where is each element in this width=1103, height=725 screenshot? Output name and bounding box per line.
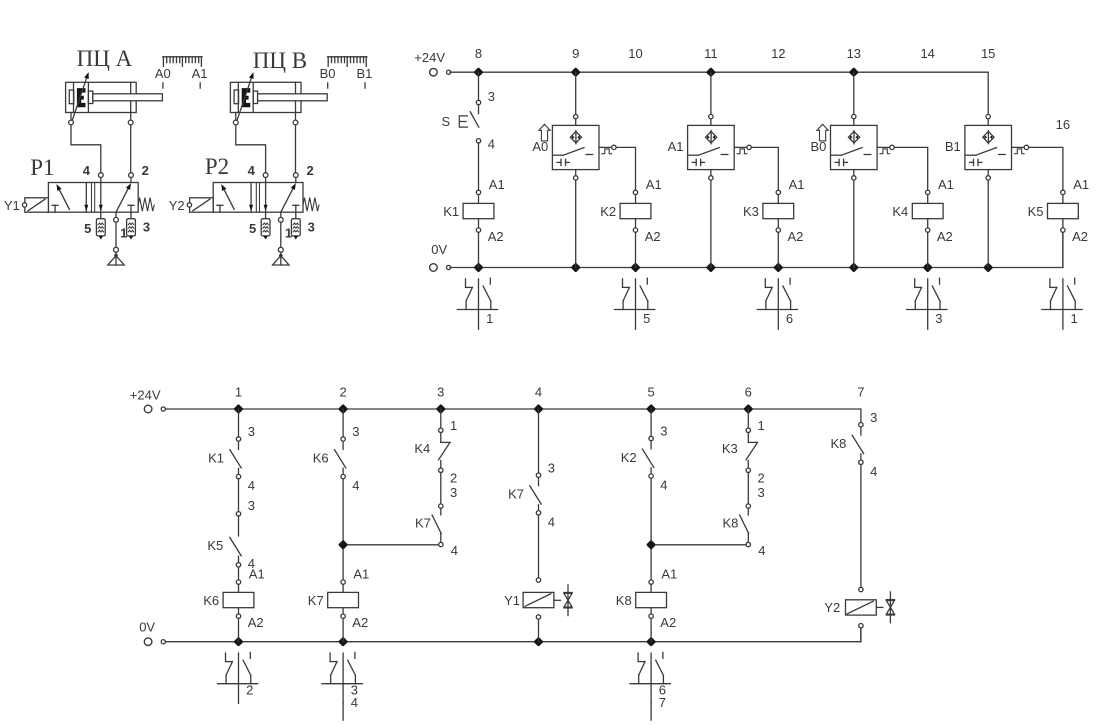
terminal A2 of K3 xyxy=(776,228,780,232)
wire K3 contact to K8 contact xyxy=(747,473,749,504)
+24V rail (upper ladder) xyxy=(450,72,988,114)
junction on 0V rail xyxy=(925,264,931,270)
port 1 of P2 xyxy=(280,212,282,217)
svg-text:K1: K1 xyxy=(208,450,224,465)
tube: ПЦ A right port to valve P1 port 2 xyxy=(130,125,132,173)
terminal A2 of K5 xyxy=(1061,228,1065,232)
0V rail (upper ladder) xyxy=(450,232,1063,267)
wire A2 of K6 to 0V rail xyxy=(238,618,240,641)
port 3 silencer of P1 xyxy=(130,212,132,219)
svg-text:B1: B1 xyxy=(945,139,961,154)
wire A1 to coil K7 xyxy=(342,584,344,592)
svg-text:K4: K4 xyxy=(414,441,430,456)
wire A1 to coil K6 xyxy=(238,584,240,592)
tube: ПЦ B right port to valve P2 port 2 xyxy=(295,125,297,173)
wire K1 contact to K5 contact xyxy=(238,479,240,512)
wire A1 to coil K8 xyxy=(650,584,652,592)
svg-text:K3: K3 xyxy=(743,204,759,219)
5/2-way solenoid valve P2 (solenoid Y2, spring return) xyxy=(187,183,319,213)
svg-text:4: 4 xyxy=(660,478,667,493)
junction on +24V rail xyxy=(851,69,857,75)
NO contact K7 (3/4) xyxy=(508,460,555,529)
NO contact K8 (3/4) xyxy=(830,410,877,479)
wire A2 of K1 to 0V rail xyxy=(478,232,480,267)
wire Y2 to 0V rail xyxy=(860,628,862,642)
wire +24V rail to switch S xyxy=(478,72,480,100)
svg-text:3: 3 xyxy=(870,410,877,425)
svg-text:K7: K7 xyxy=(308,593,324,608)
terminal A1 of K6 xyxy=(236,580,240,584)
terminal A1 of K4 xyxy=(926,190,930,194)
svg-text:A0: A0 xyxy=(155,66,171,81)
NO contact K5 (3/4) xyxy=(207,498,255,571)
svg-text:A1: A1 xyxy=(661,567,677,582)
relay coil K6 xyxy=(223,592,254,607)
wire A1 to coil K3 xyxy=(777,195,779,204)
wire +24V rail to K1 contact xyxy=(238,409,240,437)
svg-text:+24V: +24V xyxy=(414,50,445,65)
svg-text:2: 2 xyxy=(306,163,313,178)
junction on 0V rail xyxy=(985,264,991,270)
wire A2 of K8 to 0V rail xyxy=(650,618,652,641)
svg-text:K2: K2 xyxy=(600,204,616,219)
NO contact K6 (3/4) xyxy=(313,424,360,493)
junction on 0V rail xyxy=(851,264,857,270)
svg-text:S: S xyxy=(442,114,451,129)
contact cross-reference (rung 3/4) xyxy=(322,652,362,720)
compressed air source for P1 xyxy=(108,247,124,265)
svg-text:3: 3 xyxy=(248,498,255,513)
pneumatic link symbol at Y2 xyxy=(886,592,894,623)
svg-text:A1: A1 xyxy=(1073,177,1089,192)
svg-text:1: 1 xyxy=(285,226,292,241)
svg-text:A1: A1 xyxy=(353,567,369,582)
proximity switch A1 xyxy=(668,114,752,180)
junction on 0V rail xyxy=(475,264,481,270)
wire A1 output to K3 xyxy=(751,147,778,190)
contact cross-reference (rung 5) xyxy=(615,278,655,329)
wire K8 contact to Y2 xyxy=(860,465,862,588)
svg-text:4: 4 xyxy=(548,514,555,529)
wire +24V rail to A0 xyxy=(575,72,577,114)
svg-text:K5: K5 xyxy=(207,538,223,553)
junction on 0V rail xyxy=(648,639,654,645)
svg-text:A2: A2 xyxy=(352,615,368,630)
wire Y1 to 0V rail xyxy=(538,619,540,642)
junction on +24V rail xyxy=(475,69,481,75)
svg-text:5: 5 xyxy=(84,221,91,236)
junction on 0V rail xyxy=(632,264,638,270)
wire A0 output to K2 xyxy=(616,147,635,190)
contact cross-reference (rung 1) xyxy=(1042,278,1082,329)
svg-text:K7: K7 xyxy=(508,487,524,502)
svg-text:0V: 0V xyxy=(431,242,447,257)
wire coil K7 to A2 xyxy=(342,608,344,614)
wire K7 contact to Y1 xyxy=(538,515,540,578)
NO contact K2 (3/4) xyxy=(621,424,668,493)
svg-text:3: 3 xyxy=(660,424,667,439)
0V rail (lower ladder) xyxy=(165,628,861,642)
wire coil K4 to A2 xyxy=(927,219,929,228)
svg-text:A2: A2 xyxy=(937,229,953,244)
svg-text:4: 4 xyxy=(451,543,458,558)
svg-text:K5: K5 xyxy=(1028,204,1044,219)
svg-text:B1: B1 xyxy=(356,66,372,81)
svg-text:ПЦ B: ПЦ B xyxy=(253,48,307,73)
relay coil K2 xyxy=(620,203,651,218)
wire A0 to 0V rail xyxy=(575,180,577,267)
port 2 of P1 xyxy=(129,173,134,178)
svg-text:A1: A1 xyxy=(789,177,805,192)
svg-text:K3: K3 xyxy=(722,441,738,456)
double-acting cylinder ПЦ B with magnetic piston xyxy=(230,72,327,125)
wire A1 to coil K5 xyxy=(1062,195,1064,204)
terminal A1 of K5 xyxy=(1061,190,1065,194)
svg-text:Y2: Y2 xyxy=(824,600,840,615)
wire rung6 to rung5 merge xyxy=(656,544,746,546)
relay coil K7 xyxy=(328,592,359,607)
relay coil K5 xyxy=(1048,203,1079,218)
position scale B0/B1 for cylinder ПЦ B xyxy=(320,57,373,88)
valve solenoid Y1 xyxy=(504,578,560,619)
0V rail terminal (lower ladder) xyxy=(144,638,152,646)
0V rail terminal (upper ladder) xyxy=(430,264,438,272)
port 1 of P1 xyxy=(115,212,117,217)
svg-text:4: 4 xyxy=(351,695,358,710)
svg-text:6: 6 xyxy=(745,384,752,399)
terminal A1 of K1 xyxy=(476,190,480,194)
svg-text:2: 2 xyxy=(142,163,149,178)
svg-text:10: 10 xyxy=(628,46,642,61)
svg-text:4: 4 xyxy=(488,136,495,151)
terminal A1 of K7 xyxy=(341,580,345,584)
wire B0 output to K4 xyxy=(894,147,928,190)
wire coil K3 to A2 xyxy=(777,219,779,228)
tube: ПЦ B left port to valve P2 port 4 xyxy=(236,125,266,173)
svg-text:K7: K7 xyxy=(415,515,431,530)
wire B1 output to K5 xyxy=(1029,147,1063,190)
junction on 0V rail xyxy=(235,639,241,645)
double-acting cylinder ПЦ A with magnetic piston xyxy=(66,72,163,125)
junction on +24V rail xyxy=(648,406,654,412)
relay coil K3 xyxy=(763,203,794,218)
5/2-way solenoid valve P1 (solenoid Y1, spring return) xyxy=(22,183,154,213)
svg-text:A1: A1 xyxy=(646,177,662,192)
svg-text:4: 4 xyxy=(870,464,877,479)
wire +24V rail to K4 contact xyxy=(440,409,442,428)
junction on 0V rail xyxy=(775,264,781,270)
port 3 silencer of P2 xyxy=(295,212,297,219)
junction rung5/rung6 merge xyxy=(648,542,654,548)
terminal A1 of K3 xyxy=(776,190,780,194)
svg-text:Y1: Y1 xyxy=(504,593,520,608)
svg-text:A1: A1 xyxy=(668,139,684,154)
terminal A1 of K8 xyxy=(649,580,653,584)
+24V rail terminal (lower ladder) xyxy=(144,405,152,413)
svg-text:1: 1 xyxy=(450,418,457,433)
wire B0 to 0V rail xyxy=(853,180,855,267)
terminal A2 of K6 xyxy=(236,614,240,618)
svg-text:1: 1 xyxy=(120,226,127,241)
wire A2 of K5 to 0V rail xyxy=(1062,232,1064,267)
wire A2 of K3 to 0V rail xyxy=(777,232,779,267)
wire coil K5 to A2 xyxy=(1062,219,1064,228)
wire +24V rail to K2 contact xyxy=(650,409,652,436)
svg-text:3: 3 xyxy=(450,485,457,500)
svg-text:A2: A2 xyxy=(248,615,264,630)
junction on +24V rail xyxy=(235,406,241,412)
terminal A2 of K1 xyxy=(476,228,480,232)
svg-text:4: 4 xyxy=(352,478,359,493)
wire A1 to coil K2 xyxy=(635,195,637,204)
svg-text:K1: K1 xyxy=(443,204,459,219)
svg-text:3: 3 xyxy=(758,485,765,500)
svg-text:12: 12 xyxy=(771,46,785,61)
+24V rail (lower ladder) xyxy=(165,409,861,423)
svg-text:A2: A2 xyxy=(660,615,676,630)
wire +24V rail to B0 xyxy=(853,72,855,114)
NO contact K7 (3/4) rung 3 xyxy=(415,485,458,558)
svg-text:7: 7 xyxy=(659,695,666,710)
wire coil K2 to A2 xyxy=(635,219,637,228)
svg-text:3: 3 xyxy=(248,424,255,439)
wire +24V rail to A1 xyxy=(710,72,712,114)
svg-text:4: 4 xyxy=(248,163,256,178)
svg-text:13: 13 xyxy=(847,46,861,61)
svg-text:K2: K2 xyxy=(621,450,637,465)
relay coil K4 xyxy=(912,203,943,218)
junction on 0V rail xyxy=(340,639,346,645)
svg-text:5: 5 xyxy=(647,384,654,399)
svg-text:A2: A2 xyxy=(788,229,804,244)
switch S (NO, detent) xyxy=(442,89,496,151)
proximity switch A0 xyxy=(532,114,616,180)
NO contact K8 (3/4) rung 6 xyxy=(722,485,765,558)
svg-text:K8: K8 xyxy=(722,515,738,530)
NC contact K3 (1/2) xyxy=(722,418,765,485)
compressed air source for P2 xyxy=(273,247,289,265)
svg-text:A2: A2 xyxy=(1072,229,1088,244)
NC contact K4 (1/2) xyxy=(414,418,457,485)
svg-text:A1: A1 xyxy=(489,177,505,192)
svg-text:K6: K6 xyxy=(203,593,219,608)
wire coil K8 to A2 xyxy=(650,608,652,614)
proximity switch B0 xyxy=(810,114,894,180)
wire A2 of K7 to 0V rail xyxy=(342,618,344,641)
terminal A2 of K2 xyxy=(633,228,637,232)
svg-text:11: 11 xyxy=(704,46,718,61)
svg-text:4: 4 xyxy=(83,163,91,178)
svg-text:1: 1 xyxy=(486,311,493,326)
svg-text:K6: K6 xyxy=(313,450,329,465)
relay coil K8 xyxy=(636,592,667,607)
svg-text:2: 2 xyxy=(450,470,457,485)
svg-text:9: 9 xyxy=(572,46,579,61)
svg-text:A2: A2 xyxy=(488,229,504,244)
svg-text:A1: A1 xyxy=(249,567,265,582)
terminal A1 of K2 xyxy=(633,190,637,194)
port 4 of P1 xyxy=(98,173,103,178)
proximity switch B1 xyxy=(945,114,1029,180)
contact cross-reference (rung 6) xyxy=(757,278,797,329)
svg-text:3: 3 xyxy=(143,220,150,235)
position scale A0/A1 for cylinder ПЦ A xyxy=(155,57,208,88)
junction on 0V rail xyxy=(708,264,714,270)
NO contact K1 (3/4) xyxy=(208,424,255,493)
wire A1 to coil K4 xyxy=(927,195,929,204)
junction rung2/rung3 merge xyxy=(340,542,346,548)
wire A2 of K4 to 0V rail xyxy=(927,232,929,267)
svg-text:P2: P2 xyxy=(205,154,229,179)
wire +24V rail to K7 contact xyxy=(538,409,540,473)
svg-text:5: 5 xyxy=(249,221,256,236)
svg-text:2: 2 xyxy=(246,683,253,698)
junction on 0V rail xyxy=(535,639,541,645)
svg-text:A2: A2 xyxy=(645,229,661,244)
svg-text:4: 4 xyxy=(535,384,542,399)
relay coil K1 xyxy=(463,203,494,218)
contact cross-reference (rung 6/7) xyxy=(630,652,670,720)
svg-text:1: 1 xyxy=(1071,311,1078,326)
junction on +24V rail xyxy=(708,69,714,75)
svg-text:15: 15 xyxy=(981,46,995,61)
svg-text:1: 1 xyxy=(758,418,765,433)
svg-text:Y1: Y1 xyxy=(4,198,20,213)
svg-text:3: 3 xyxy=(935,311,942,326)
svg-text:2: 2 xyxy=(339,384,346,399)
svg-text:6: 6 xyxy=(786,311,793,326)
junction on 0V rail xyxy=(573,264,579,270)
svg-text:4: 4 xyxy=(248,478,255,493)
wire coil K6 to A2 xyxy=(238,608,240,614)
junction on +24V rail xyxy=(573,69,579,75)
wire +24V rail to K6 contact xyxy=(342,409,344,437)
svg-text:B0: B0 xyxy=(320,66,336,81)
terminal A2 of K4 xyxy=(926,228,930,232)
svg-text:K8: K8 xyxy=(830,436,846,451)
svg-text:16: 16 xyxy=(1056,117,1070,132)
svg-text:8: 8 xyxy=(475,46,482,61)
wire A2 of K2 to 0V rail xyxy=(635,232,637,267)
terminal A2 of K7 xyxy=(341,614,345,618)
wire A1 to coil K1 xyxy=(478,195,480,204)
pneumatic link symbol at Y1 xyxy=(564,585,572,616)
port 4 of P2 xyxy=(263,173,268,178)
port 5 silencer of P2 xyxy=(265,212,267,219)
wire A1 to 0V rail xyxy=(710,180,712,267)
svg-text:P1: P1 xyxy=(30,155,54,180)
port 5 silencer of P1 xyxy=(100,212,102,219)
wire switch S to K1 xyxy=(478,143,480,191)
svg-text:K4: K4 xyxy=(892,204,908,219)
svg-text:2: 2 xyxy=(758,470,765,485)
junction on +24V rail xyxy=(438,406,444,412)
contact cross-reference (rung 3) xyxy=(907,278,947,329)
wire +24V rail to K3 contact xyxy=(747,409,749,428)
svg-text:7: 7 xyxy=(857,384,864,399)
junction on +24V rail xyxy=(745,406,751,412)
port 2 of P2 xyxy=(293,173,298,178)
junction on +24V rail xyxy=(535,406,541,412)
svg-text:K8: K8 xyxy=(616,593,632,608)
svg-text:4: 4 xyxy=(758,543,765,558)
junction on +24V rail xyxy=(340,406,346,412)
svg-text:3: 3 xyxy=(548,460,555,475)
svg-text:5: 5 xyxy=(643,311,650,326)
wire rung3 to rung2 merge xyxy=(348,544,439,546)
wire K2 contact down to merge node xyxy=(650,478,652,580)
terminal A2 of K8 xyxy=(649,614,653,618)
wire K6 contact down to merge node xyxy=(342,479,344,580)
valve solenoid Y2 xyxy=(824,587,883,628)
svg-text:0V: 0V xyxy=(139,620,155,635)
svg-text:14: 14 xyxy=(920,46,934,61)
contact cross-reference (rung 2) xyxy=(218,652,258,703)
contact cross-reference (rung 1) xyxy=(458,278,498,329)
wire K4 contact to K7 contact xyxy=(440,473,442,504)
wire coil K1 to A2 xyxy=(478,219,480,228)
svg-text:+24V: +24V xyxy=(130,388,161,403)
svg-text:1: 1 xyxy=(235,384,242,399)
svg-text:3: 3 xyxy=(308,220,315,235)
svg-text:A1: A1 xyxy=(938,177,954,192)
tube: ПЦ A left port to valve P1 port 4 xyxy=(71,125,101,173)
svg-text:A1: A1 xyxy=(192,66,208,81)
svg-text:ПЦ A: ПЦ A xyxy=(77,46,133,71)
wire B1 to 0V rail xyxy=(987,180,989,267)
svg-text:3: 3 xyxy=(437,384,444,399)
+24V rail terminal (upper ladder) xyxy=(430,68,438,76)
wire K5 contact to K6 coil xyxy=(238,567,240,580)
svg-text:3: 3 xyxy=(352,424,359,439)
svg-text:Y2: Y2 xyxy=(169,198,185,213)
svg-text:3: 3 xyxy=(488,89,495,104)
